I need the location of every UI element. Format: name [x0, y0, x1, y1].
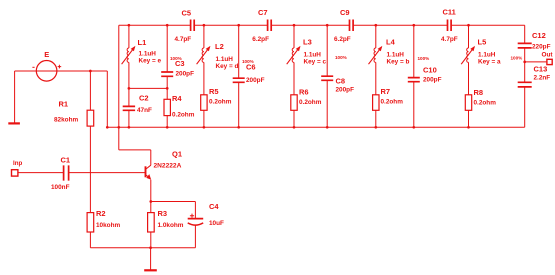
svg-text:100%: 100% [418, 56, 430, 61]
svg-text:C6: C6 [246, 62, 256, 71]
svg-text:220pF: 220pF [532, 43, 551, 50]
svg-text:200pF: 200pF [336, 87, 355, 94]
svg-text:C1: C1 [61, 156, 71, 165]
svg-text:47nF: 47nF [137, 107, 152, 114]
svg-text:6.2pF: 6.2pF [252, 36, 269, 43]
svg-text:200pF: 200pF [176, 70, 195, 77]
svg-text:2N2222A: 2N2222A [154, 162, 182, 169]
svg-text:C13: C13 [534, 65, 548, 74]
svg-text:E: E [44, 50, 49, 59]
svg-text:R8: R8 [474, 88, 484, 97]
svg-text:R3: R3 [158, 209, 168, 218]
svg-text:L4: L4 [386, 37, 396, 46]
svg-text:1.1uH: 1.1uH [216, 56, 234, 63]
svg-text:1.0kohm: 1.0kohm [158, 222, 184, 229]
svg-text:Out: Out [542, 51, 554, 58]
svg-text:C4: C4 [209, 202, 219, 211]
svg-text:4.7pF: 4.7pF [175, 36, 192, 43]
svg-text:100%: 100% [511, 55, 523, 60]
svg-text:C9: C9 [340, 8, 350, 17]
svg-text:1.1uH: 1.1uH [478, 51, 496, 58]
svg-text:C8: C8 [336, 77, 346, 86]
svg-text:1.1uH: 1.1uH [387, 51, 405, 58]
svg-text:1.1uH: 1.1uH [304, 51, 322, 58]
svg-text:Q1: Q1 [172, 149, 182, 158]
svg-text:C2: C2 [139, 93, 149, 102]
svg-text:0.2ohm: 0.2ohm [172, 111, 195, 118]
svg-text:R5: R5 [209, 87, 219, 96]
svg-text:R6: R6 [299, 88, 309, 97]
svg-text:Inp: Inp [13, 160, 22, 167]
svg-text:Key = e: Key = e [139, 58, 162, 65]
svg-text:0.2ohm: 0.2ohm [474, 100, 497, 107]
svg-text:R2: R2 [96, 209, 106, 218]
svg-text:Key = d: Key = d [216, 63, 239, 70]
svg-text:C5: C5 [182, 8, 192, 17]
svg-text:Key = a: Key = a [478, 58, 501, 65]
svg-text:10kohm: 10kohm [96, 222, 120, 229]
svg-text:L2: L2 [215, 42, 224, 51]
svg-text:C10: C10 [423, 66, 437, 75]
svg-text:0.2ohm: 0.2ohm [381, 99, 404, 106]
svg-text:200pF: 200pF [423, 77, 442, 84]
svg-text:R1: R1 [59, 100, 69, 109]
svg-text:C7: C7 [258, 8, 268, 17]
svg-text:100%: 100% [335, 55, 347, 60]
svg-text:R4: R4 [172, 94, 182, 103]
svg-text:C3: C3 [175, 59, 185, 68]
svg-text:Key = c: Key = c [304, 58, 327, 65]
svg-text:2.2nF: 2.2nF [534, 75, 551, 82]
svg-text:0.2ohm: 0.2ohm [209, 99, 232, 106]
svg-text:0.2ohm: 0.2ohm [299, 99, 322, 106]
svg-text:Key = b: Key = b [387, 58, 410, 65]
svg-text:4.7pF: 4.7pF [441, 36, 458, 43]
svg-text:C11: C11 [443, 8, 456, 17]
svg-text:200pF: 200pF [246, 77, 265, 84]
svg-text:L5: L5 [478, 37, 487, 46]
svg-text:100nF: 100nF [51, 184, 70, 191]
svg-text:C12: C12 [532, 31, 546, 40]
svg-text:1.1uH: 1.1uH [139, 50, 157, 57]
svg-text:L1: L1 [138, 38, 147, 47]
svg-text:6.2pF: 6.2pF [334, 36, 351, 43]
svg-text:R7: R7 [381, 87, 391, 96]
svg-text:82kohm: 82kohm [54, 116, 78, 123]
svg-text:10uF: 10uF [209, 220, 224, 227]
svg-text:L3: L3 [303, 37, 312, 46]
